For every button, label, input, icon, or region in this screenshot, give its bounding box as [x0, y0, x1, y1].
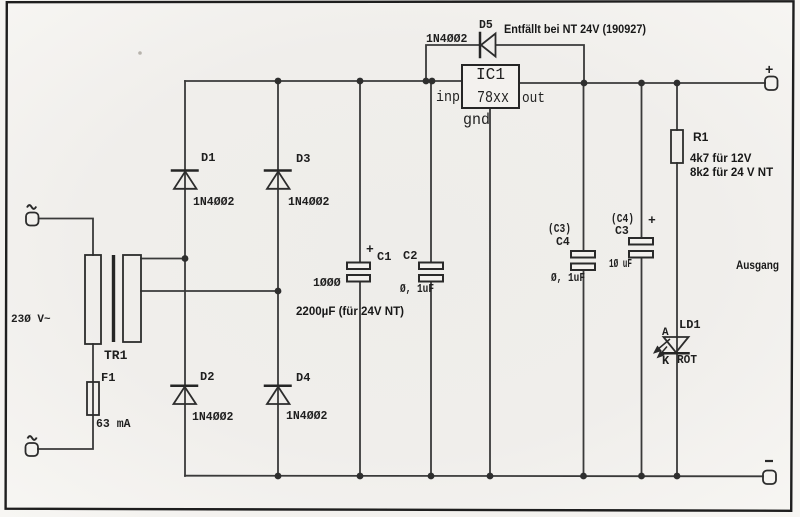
svg-text:C1: C1	[377, 250, 391, 264]
svg-text:+: +	[648, 213, 656, 228]
svg-text:1N4ØØ2: 1N4ØØ2	[192, 411, 234, 424]
svg-text:C3: C3	[615, 225, 629, 238]
svg-text:inp: inp	[436, 89, 460, 106]
svg-text:4k7 für 12V: 4k7 für 12V	[690, 153, 752, 165]
svg-text:LD1: LD1	[679, 318, 701, 332]
svg-text:D5: D5	[479, 19, 493, 32]
svg-text:2200µF (für 24V NT): 2200µF (für 24V NT)	[296, 304, 404, 318]
svg-text:ROT: ROT	[677, 354, 697, 367]
svg-text:TR1: TR1	[104, 348, 128, 363]
svg-text:IC1: IC1	[476, 65, 505, 84]
svg-text:Ausgang: Ausgang	[736, 258, 779, 272]
svg-text:1N4ØØ2: 1N4ØØ2	[426, 33, 468, 46]
svg-text:+: +	[366, 242, 374, 257]
svg-text:1ØØØ: 1ØØØ	[313, 277, 341, 290]
svg-text:1Ø uF: 1Ø uF	[609, 258, 632, 271]
svg-text:D2: D2	[200, 370, 214, 384]
svg-text:Ø, 1uF: Ø, 1uF	[551, 272, 585, 285]
svg-text:K: K	[662, 354, 670, 368]
svg-text:C2: C2	[403, 249, 417, 263]
svg-text:+: +	[765, 63, 773, 79]
svg-text:out: out	[522, 90, 545, 107]
svg-text:23Ø V~: 23Ø V~	[11, 314, 51, 326]
svg-text:78xx: 78xx	[477, 88, 509, 107]
svg-text:1N4ØØ2: 1N4ØØ2	[193, 196, 235, 209]
svg-text:R1: R1	[693, 130, 709, 144]
svg-text:D4: D4	[296, 371, 310, 385]
svg-text:C4: C4	[556, 236, 570, 249]
svg-text:A: A	[662, 327, 669, 339]
svg-text:8k2 für 24 V NT: 8k2 für 24 V NT	[690, 167, 773, 179]
svg-text:Ø, 1uF: Ø, 1uF	[400, 283, 434, 296]
svg-text:D3: D3	[296, 152, 310, 166]
svg-text:63 mA: 63 mA	[96, 418, 131, 431]
svg-text:1N4ØØ2: 1N4ØØ2	[286, 410, 328, 423]
svg-text:Entfällt bei NT 24V (190927): Entfällt bei NT 24V (190927)	[504, 22, 646, 36]
svg-text:F1: F1	[101, 371, 115, 385]
svg-text:1N4ØØ2: 1N4ØØ2	[288, 196, 330, 209]
svg-text:D1: D1	[201, 151, 215, 165]
svg-text:gnd: gnd	[463, 111, 490, 129]
svg-text:(C3): (C3)	[548, 223, 571, 236]
